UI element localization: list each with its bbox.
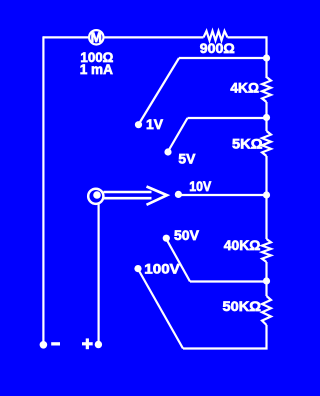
svg-text:100V: 100V (144, 261, 180, 277)
resistor 40KΩ (vertical zigzag) (262, 239, 271, 262)
meter M (moving-coil meter symbol) (89, 30, 103, 45)
svg-text:5V: 5V (178, 151, 196, 167)
resistor 5KΩ (vertical zigzag) (262, 131, 271, 156)
label - (minus sign) (51, 342, 60, 345)
wire: diagonal from 5V contact up to tap line (168, 118, 188, 152)
node: junction of 40KΩ and 50KΩ (50V tap) (263, 277, 270, 284)
terminal + (positive) dot (95, 341, 102, 348)
switch S1 pivot center dot (93, 191, 101, 199)
svg-text:1 mA: 1 mA (80, 61, 113, 77)
wire: right rail between 1V junction and 4KΩ (265, 58, 267, 78)
resistor 50KΩ (vertical zigzag) (262, 296, 271, 325)
wire: top segment from meter to resistor 900Ω (105, 36, 204, 38)
wire: right rail between 5KΩ and 10V junction (265, 156, 267, 239)
wire: left rail from top corner down to - terminal (42, 36, 44, 342)
wire: from switch pivot down to + terminal (97, 204, 99, 342)
wire: horizontal 1V tap line (179, 57, 267, 59)
svg-text:M: M (91, 30, 102, 45)
svg-text:50KΩ: 50KΩ (223, 298, 262, 314)
wire: top-left segment from left rail to meter (43, 36, 89, 38)
svg-text:5KΩ: 5KΩ (232, 136, 263, 152)
node: switch contact 1V (135, 121, 142, 128)
wire: top-right segment from resistor 900Ω to right rail corner (228, 37, 267, 58)
switch S1 wiper arrow shaft (hollow) (104, 192, 152, 198)
node: switch contact 5V (164, 148, 171, 155)
svg-text:10V: 10V (189, 178, 212, 194)
node: switch contact 10V (175, 191, 182, 198)
wire: right rail between 4KΩ and 5V junction (265, 102, 267, 131)
node: junction of 5KΩ and 40KΩ (10V tap) (263, 191, 270, 198)
wire: horizontal 10V tap line (178, 194, 266, 196)
svg-text:1V: 1V (146, 116, 164, 132)
node: junction of 4KΩ and 5KΩ (5V tap) (263, 114, 270, 121)
switch S1 wiper arrowhead (open) (147, 187, 168, 205)
label + (plus sign) (82, 338, 93, 349)
svg-text:40KΩ: 40KΩ (224, 237, 261, 253)
wire: right rail bottom corner and bottom return wire (183, 325, 267, 349)
node: junction of 900Ω and 4KΩ (1V tap) (263, 54, 270, 61)
node: switch contact 100V (134, 265, 141, 272)
svg-text:900Ω: 900Ω (200, 40, 235, 56)
switch S1 rotary wiper: pivot ring (88, 189, 103, 204)
svg-text:50V: 50V (174, 227, 200, 243)
wire: diagonal from 50V contact down to tap line (166, 239, 190, 282)
resistor 900Ω (horizontal zigzag) (204, 31, 228, 41)
wire: right rail between 40KΩ and 50V junction (265, 262, 267, 296)
wire: horizontal 50V tap line (190, 280, 267, 282)
resistor 4KΩ (vertical zigzag) (262, 77, 271, 102)
node: switch contact 50V (163, 235, 170, 242)
wire: horizontal 5V tap line (188, 117, 267, 119)
svg-text:4KΩ: 4KΩ (230, 80, 259, 96)
wire: diagonal from 1V contact up to tap line (139, 58, 180, 125)
terminal - (negative) dot (40, 341, 48, 349)
wire: diagonal from 100V contact down to bottom return wire (138, 269, 183, 349)
